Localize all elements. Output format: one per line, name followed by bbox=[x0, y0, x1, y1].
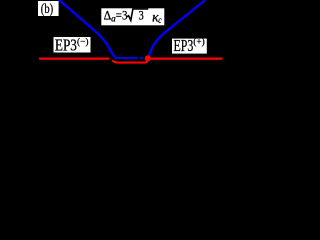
svg-text:3: 3 bbox=[139, 8, 144, 23]
svg-text:(+): (+) bbox=[193, 37, 205, 48]
svg-text:EP3: EP3 bbox=[55, 36, 77, 55]
svg-text:c: c bbox=[158, 15, 161, 25]
svg-text:(−): (−) bbox=[77, 37, 89, 48]
svg-text:EP3: EP3 bbox=[174, 36, 194, 55]
svg-text:=3: =3 bbox=[116, 8, 128, 23]
svg-text:Δ: Δ bbox=[104, 7, 112, 22]
svg-text:(b): (b) bbox=[41, 2, 54, 17]
